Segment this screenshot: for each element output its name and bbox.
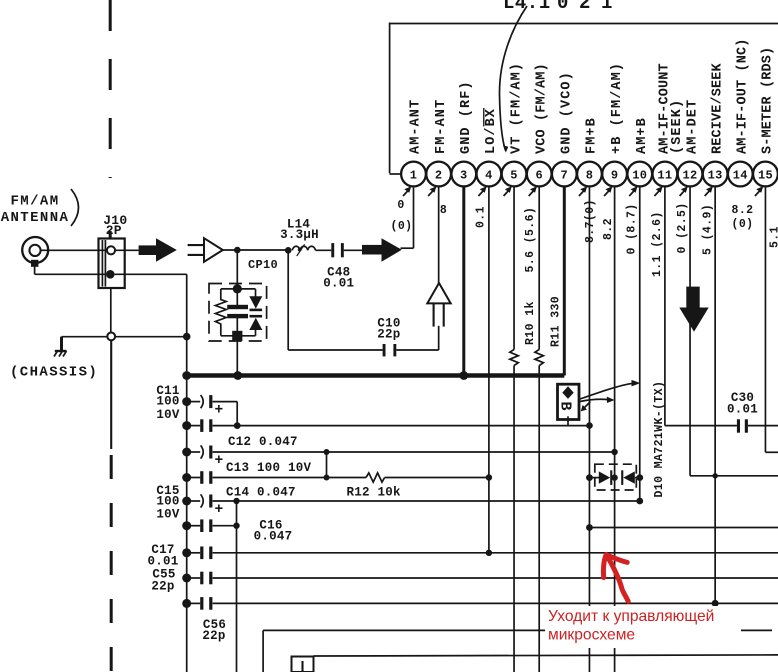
wire: pin 12 drop bbox=[689, 186, 691, 476]
pin 2 measurement tick arrow bbox=[428, 190, 434, 197]
svg-text:1.1 (2.6): 1.1 (2.6) bbox=[651, 211, 664, 277]
wire: pin 6 drop upper bbox=[538, 186, 540, 350]
wire: C17 row to right edge bbox=[213, 552, 778, 554]
arrow symbol (open) bbox=[188, 238, 223, 262]
svg-text:FM/AM: FM/AM bbox=[10, 194, 59, 210]
wire: pin 7 ground drop bbox=[563, 186, 566, 376]
svg-text:5 (4.9): 5 (4.9) bbox=[701, 204, 714, 255]
wire: lower connector row bbox=[314, 655, 778, 656]
junction: rail/chassis row bbox=[183, 333, 191, 341]
wire: C10 branch drop bbox=[287, 250, 289, 350]
CP10 arrester zigzag bbox=[215, 289, 226, 336]
svg-text:1: 1 bbox=[601, 0, 613, 14]
IC body bottom stub bbox=[390, 173, 403, 175]
diode pair D10 dashed box bbox=[595, 464, 637, 490]
wire: C15 row across to pin 10 line bbox=[213, 500, 640, 502]
svg-text:11: 11 bbox=[657, 169, 672, 183]
wire: C30 to right edge bbox=[748, 425, 778, 427]
capacitor C13 (100/10V) bbox=[187, 451, 201, 453]
wire: shield line below junction bbox=[110, 340, 112, 449]
wire: pin 4 drop bbox=[488, 186, 490, 553]
svg-text:10V: 10V bbox=[156, 408, 180, 422]
wire: pin 5 drop lower bbox=[513, 366, 515, 672]
pin 11 measurement tick arrow bbox=[654, 190, 660, 197]
capacitor C30 bbox=[737, 419, 740, 432]
svg-text:S-METER (RDS): S-METER (RDS) bbox=[761, 47, 776, 154]
svg-text:R11 330: R11 330 bbox=[550, 296, 563, 347]
IC pin 14 circle bbox=[728, 162, 753, 187]
svg-text:0.01: 0.01 bbox=[727, 403, 758, 417]
wire: J10 pin2 to ground rail bbox=[115, 273, 187, 275]
wire: B+ box stub to C12 row bbox=[567, 416, 569, 425]
IC pin 5 circle bbox=[502, 162, 527, 187]
D10 diode 1 bbox=[599, 471, 610, 483]
pin 10 measurement tick arrow bbox=[629, 190, 635, 197]
wire: dashed shield border top bbox=[109, 0, 112, 178]
wire: antenna shield drop bbox=[34, 265, 36, 274]
pin 9 measurement tick arrow bbox=[604, 190, 610, 197]
capacitor C12 (0.047) bbox=[187, 425, 201, 427]
op-amp/IC body top edge bbox=[390, 23, 778, 25]
capacitor C17 (0.01) bbox=[187, 552, 201, 554]
svg-text:2: 2 bbox=[435, 169, 443, 183]
connector symbol in lower box bbox=[292, 657, 314, 672]
IC pin 12 circle bbox=[678, 162, 703, 187]
node: open junction at chassis row bbox=[107, 333, 115, 341]
svg-text:0 (8.7): 0 (8.7) bbox=[626, 203, 639, 254]
wire: C10 to pin 2 line bbox=[396, 349, 438, 351]
svg-text:+: + bbox=[214, 502, 223, 518]
arrow symbol (open, up) on pin 2 line bbox=[427, 283, 450, 327]
resistor R11 bbox=[535, 350, 544, 366]
IC pin 2 circle bbox=[426, 162, 451, 187]
svg-text:0: 0 bbox=[397, 199, 404, 212]
IC pin 7 circle bbox=[552, 162, 577, 187]
wire: arrow to pin 1 drop bbox=[401, 247, 414, 249]
wire: R12 to pin 4 line bbox=[385, 477, 489, 479]
svg-text:(SEEK): (SEEK) bbox=[670, 99, 685, 154]
wire: pin 2 drop bbox=[438, 186, 440, 350]
arrow symbol (filled) after J10 bbox=[139, 238, 177, 261]
svg-text:0.01: 0.01 bbox=[147, 555, 178, 569]
resistor R10 bbox=[510, 350, 519, 366]
svg-text:(0): (0) bbox=[391, 220, 413, 233]
svg-text:ANTENNA: ANTENNA bbox=[1, 210, 70, 226]
svg-text:+: + bbox=[214, 403, 223, 419]
svg-text:0: 0 bbox=[557, 0, 569, 14]
leader arrow B+ to pin 9 line bbox=[580, 399, 609, 401]
antenna jack outer ring bbox=[22, 237, 48, 263]
junction: pin 3 on bus bbox=[459, 371, 468, 380]
wire: pin 12 row to right edge bbox=[690, 475, 778, 477]
leader arrow B+ to pin 10 line bbox=[580, 383, 633, 399]
junction: antenna shield tap bbox=[31, 260, 38, 267]
wire: CP10 bottom rail bbox=[221, 335, 256, 337]
svg-text:3: 3 bbox=[460, 169, 468, 183]
B+ supply box bbox=[558, 384, 580, 419]
wire: C14 to R12 bbox=[213, 477, 366, 479]
junction: CP10 bottom rail bbox=[232, 331, 242, 341]
svg-text:AM-ANT: AM-ANT bbox=[409, 99, 424, 154]
wire: open arrow to CP10 node bbox=[223, 249, 288, 251]
svg-text:3.3µH: 3.3µH bbox=[280, 228, 319, 242]
svg-text:GND (RF): GND (RF) bbox=[459, 80, 474, 154]
capacitor C11 (100/10V) bbox=[187, 401, 201, 403]
IC pin 1 circle bbox=[401, 162, 426, 187]
svg-text:2: 2 bbox=[579, 0, 591, 14]
svg-text:0.01: 0.01 bbox=[323, 277, 354, 291]
svg-text:RECIVE/SEEK: RECIVE/SEEK bbox=[710, 62, 725, 154]
pin 5 measurement tick arrow bbox=[504, 190, 510, 197]
wire: C56 row to right edge bbox=[213, 602, 778, 604]
wire: C48 to arrow bbox=[344, 249, 362, 251]
capacitor C56 (22p) bbox=[187, 602, 201, 604]
svg-text:22p: 22p bbox=[151, 580, 174, 594]
wire: pin 9 drop bbox=[614, 186, 616, 672]
IC body left edge bbox=[389, 23, 391, 174]
junction: C10 tap bbox=[285, 247, 292, 254]
wire: J10 pin1 to arrow bbox=[115, 249, 139, 251]
wire: dashed shield border bottom bbox=[110, 455, 113, 672]
CP10 diode lower bbox=[250, 315, 263, 318]
IC pin 13 circle bbox=[703, 162, 728, 187]
svg-text:5: 5 bbox=[510, 169, 518, 183]
svg-text:10V: 10V bbox=[156, 508, 180, 522]
svg-text:1: 1 bbox=[410, 169, 418, 183]
svg-text:(0): (0) bbox=[732, 218, 754, 231]
svg-text:B: B bbox=[556, 402, 573, 411]
inductor L14 bbox=[292, 244, 315, 256]
wire: pin 10 drop bbox=[639, 186, 641, 501]
wire: pin 5 drop upper bbox=[513, 186, 515, 350]
svg-text:13: 13 bbox=[708, 169, 723, 183]
IC pin 9 circle bbox=[602, 162, 627, 187]
capacitor C55 (22p) bbox=[187, 577, 201, 579]
arrow symbol (filled, down) on pin 12 line bbox=[679, 287, 708, 332]
wire: pin 11 row (C30 feed) bbox=[665, 425, 737, 427]
wire: antenna shield to J10 pin 2 bbox=[35, 273, 106, 275]
arrow symbol (filled) into pin 1 bbox=[362, 238, 402, 261]
wire: pin 6 drop lower bbox=[538, 366, 540, 672]
svg-text:4: 4 bbox=[485, 169, 493, 183]
D10 right lead bbox=[635, 477, 640, 479]
capacitor C15 (100/10V) bbox=[187, 500, 201, 502]
capacitor C48 bbox=[331, 243, 334, 257]
svg-text:7: 7 bbox=[561, 169, 569, 183]
svg-text:0.1: 0.1 bbox=[475, 206, 488, 228]
CP10 capacitor plates bbox=[227, 305, 248, 309]
wire: J10 bottom to chassis node bbox=[110, 288, 112, 332]
IC pin 3 circle bbox=[451, 162, 476, 187]
svg-text:15: 15 bbox=[758, 169, 773, 183]
wire: L14 to C48 bbox=[315, 249, 331, 251]
wire: C55 row to right edge bbox=[213, 577, 778, 579]
svg-text:CP10: CP10 bbox=[248, 258, 278, 272]
pin 6 measurement tick arrow bbox=[529, 190, 535, 197]
wire: lower box top edge bbox=[263, 629, 772, 631]
wire: CP10 top rail bbox=[221, 288, 256, 290]
junction: CP10 top rail bbox=[233, 284, 242, 293]
wire: pin 13 drop bbox=[714, 186, 716, 604]
wire: antenna center to J10 pin 1 bbox=[41, 249, 107, 251]
IC pin 6 circle bbox=[527, 162, 552, 187]
capacitor C10 bbox=[383, 344, 386, 356]
junction: rail/bus corner bbox=[182, 371, 191, 380]
svg-text:VCO (FM/AM): VCO (FM/AM) bbox=[534, 63, 549, 154]
pin 13 measurement tick arrow bbox=[705, 190, 711, 197]
svg-text:C13 100 10V: C13 100 10V bbox=[226, 461, 312, 475]
svg-text:+B (FM/AM): +B (FM/AM) bbox=[610, 62, 625, 154]
svg-text:FM-ANT: FM-ANT bbox=[434, 99, 449, 154]
wire: C15/C16 branch down bbox=[236, 501, 238, 672]
wire: shield border stub above J10 bbox=[109, 231, 112, 239]
antenna jack inner pin bbox=[29, 245, 40, 256]
svg-text:10: 10 bbox=[632, 169, 647, 183]
svg-text:22p: 22p bbox=[377, 328, 400, 342]
wire: lower box left edge bbox=[262, 630, 264, 672]
svg-text:8: 8 bbox=[440, 204, 447, 217]
pin 15 measurement tick arrow bbox=[755, 190, 761, 197]
IC pin 10 circle bbox=[627, 162, 652, 187]
svg-text:100: 100 bbox=[156, 495, 179, 509]
svg-text:9: 9 bbox=[611, 169, 619, 183]
svg-text:(CHASSIS): (CHASSIS) bbox=[10, 365, 98, 381]
svg-text:C14 0.047: C14 0.047 bbox=[226, 486, 296, 500]
svg-text:R12 10k: R12 10k bbox=[347, 486, 402, 500]
wire: ground bus horizontal (pin 7) bbox=[187, 373, 565, 378]
D10 left lead bbox=[589, 477, 599, 479]
ground (chassis) symbol bbox=[54, 337, 67, 357]
svg-text:100: 100 bbox=[156, 395, 179, 409]
svg-text:+: + bbox=[214, 453, 223, 469]
leader arrow back into B+ box bbox=[585, 402, 591, 408]
svg-text:8: 8 bbox=[586, 169, 594, 183]
annotation white backing bbox=[545, 606, 741, 648]
IC pin 11 circle bbox=[653, 162, 678, 187]
capacitor C16 (0.047) bbox=[187, 525, 201, 527]
wire: pin 11 drop bbox=[664, 186, 666, 426]
CP10 diode upper bbox=[255, 289, 257, 297]
annotation red arrow bbox=[603, 555, 628, 602]
wire: to C10 bbox=[288, 349, 382, 351]
wire: chassis row bbox=[62, 336, 187, 338]
connector J10 body bbox=[99, 239, 125, 289]
wire: C12 row to pin 8 line bbox=[213, 425, 590, 427]
IC pin 8 circle bbox=[577, 162, 602, 187]
wire: CP10 cap bottom lead bbox=[236, 318, 238, 376]
pin 1 measurement tick arrow bbox=[403, 190, 409, 197]
connector J10 mating face lines bbox=[101, 240, 103, 287]
svg-text:2P: 2P bbox=[106, 223, 122, 238]
wire: pin 15 drop bbox=[764, 186, 766, 453]
wire: pin 8 drop bbox=[588, 186, 590, 672]
svg-text:микросхеме: микросхеме bbox=[548, 627, 635, 644]
svg-text:VT (FM/AM): VT (FM/AM) bbox=[509, 62, 524, 154]
svg-text:AM+B: AM+B bbox=[635, 117, 650, 154]
svg-text:Уходит к управляющей: Уходит к управляющей bbox=[548, 608, 714, 625]
IC pin 4 circle bbox=[477, 162, 502, 187]
svg-text:GND (VCO): GND (VCO) bbox=[560, 71, 575, 154]
connector J10 contact 1 (open) bbox=[107, 246, 115, 254]
svg-text:C12 0.047: C12 0.047 bbox=[228, 435, 298, 449]
wire: C13/C14 tie bbox=[326, 452, 328, 478]
pin 4 measurement tick arrow bbox=[478, 190, 484, 197]
wire: pin 1 drop bbox=[413, 186, 415, 248]
svg-text:5.6 (5.6): 5.6 (5.6) bbox=[524, 207, 537, 273]
junction: CP10 tap bbox=[234, 247, 241, 254]
svg-text:6: 6 bbox=[535, 169, 543, 183]
junction: CP10 on bus bbox=[233, 371, 242, 380]
IC pin 15 circle bbox=[753, 162, 778, 187]
leader curve from part number bbox=[499, 6, 527, 151]
svg-text:FM+B: FM+B bbox=[585, 117, 600, 154]
svg-text:8.2: 8.2 bbox=[732, 204, 754, 217]
svg-text:AM-IF-OUT (NC): AM-IF-OUT (NC) bbox=[736, 38, 751, 154]
svg-text:22p: 22p bbox=[202, 629, 225, 643]
capacitor C14 (0.047) bbox=[187, 477, 201, 479]
svg-text:D10 MA721WK-(TX): D10 MA721WK-(TX) bbox=[653, 381, 666, 498]
svg-text:LO/BX: LO/BX bbox=[484, 108, 499, 154]
svg-text:8.2: 8.2 bbox=[602, 218, 615, 240]
svg-text:AM-DET: AM-DET bbox=[685, 99, 700, 154]
D10 diode 2 bbox=[621, 470, 623, 485]
svg-text:14: 14 bbox=[733, 169, 748, 183]
svg-text:12: 12 bbox=[683, 169, 698, 183]
surge arrester CP10 dashed box bbox=[209, 284, 267, 342]
junction: D10 terminals bbox=[586, 474, 593, 481]
wire: pin 15 row to edge bbox=[765, 451, 778, 453]
wire: pin 8 tap row to right edge bbox=[589, 527, 778, 529]
wire: left ground rail vertical bbox=[186, 274, 188, 672]
pin 12 measurement tick arrow bbox=[680, 190, 686, 197]
connector J10 contact 2 (filled) bbox=[106, 270, 115, 279]
svg-text:0 (2.5): 0 (2.5) bbox=[676, 202, 689, 253]
svg-text:R10 1k: R10 1k bbox=[524, 301, 537, 345]
wire: C13 row to pin 9 line bbox=[213, 451, 615, 453]
wire: CP10 feed bbox=[236, 250, 238, 306]
wire: C11 to C12 row bbox=[236, 402, 238, 426]
pin 8 measurement tick arrow bbox=[579, 190, 585, 197]
svg-text:0.047: 0.047 bbox=[254, 530, 293, 544]
resistor R12 bbox=[366, 473, 385, 482]
wire: pin 3 ground drop bbox=[462, 186, 465, 376]
brace for antenna label bbox=[71, 189, 79, 226]
svg-text:5.1: 5.1 bbox=[769, 226, 778, 248]
